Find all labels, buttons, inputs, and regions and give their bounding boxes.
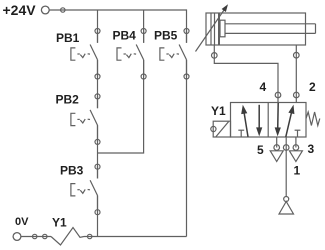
connection node a on 0V rail — [33, 234, 37, 238]
push button PB2 — [71, 94, 100, 144]
svg-text:Y1: Y1 — [211, 104, 226, 118]
valve left position flow path 2 to 3 — [258, 105, 260, 130]
connection node valve port 2 — [294, 92, 300, 98]
relay coil Y1 — [51, 228, 84, 246]
push button PB4 — [117, 29, 146, 80]
svg-text:PB5: PB5 — [154, 29, 178, 43]
wire PB5 branch drop — [186, 9, 188, 42]
svg-text:+24V: +24V — [3, 2, 37, 18]
svg-text:4: 4 — [260, 80, 267, 94]
+24V supply terminal — [41, 6, 49, 14]
connection node valve port 4 — [275, 92, 281, 98]
tube cylinder right port to valve port 2 — [295, 45, 297, 103]
svg-text:PB4: PB4 — [113, 29, 137, 43]
svg-text:1: 1 — [294, 164, 301, 178]
wire PB3 to 0V rail — [97, 195, 99, 236]
wire valve port 5 stub — [276, 137, 278, 148]
cylinder A (double-acting with cushioning) — [206, 13, 316, 45]
wire PB1 branch drop — [97, 10, 99, 43]
0V supply terminal — [13, 233, 21, 241]
push button PB5 — [160, 29, 189, 80]
svg-text:5: 5 — [257, 143, 264, 157]
wire 0V lead — [21, 236, 51, 238]
svg-text:Y1: Y1 — [52, 216, 67, 230]
svg-text:3: 3 — [308, 142, 315, 156]
wire PB4 branch drop — [143, 10, 145, 43]
push button PB3 — [71, 164, 100, 215]
connection node after coil Y1 — [88, 234, 92, 238]
valve left position blocked port 5 — [238, 129, 244, 131]
wire +24V rail — [49, 9, 186, 11]
push button PB1 — [71, 29, 100, 80]
connection node valve port 1 — [283, 145, 289, 151]
svg-text:0V: 0V — [15, 216, 29, 228]
connection node b on 0V rail — [43, 234, 47, 238]
tube cylinder left port to valve port 4 — [214, 45, 278, 103]
wire 0V rail — [84, 236, 187, 238]
tube valve port 1 to supply — [285, 137, 287, 197]
connection node valve port 3 — [293, 145, 299, 151]
exhaust silencer port 5 — [270, 151, 283, 162]
compressed air supply — [279, 202, 294, 215]
connection node on +24V rail — [61, 8, 65, 12]
cushioning adjustment arrow — [196, 9, 225, 52]
valve rest position flow path 4 to 5 — [277, 103, 280, 130]
svg-text:PB1: PB1 — [56, 31, 80, 45]
connection node cylinder left port — [212, 53, 218, 59]
valve rest position flow path 1 to 2 — [286, 110, 292, 137]
wire PB5 to 0V rail — [186, 60, 188, 237]
valve V1 body (5/2 way) — [231, 103, 307, 138]
exhaust silencer port 3 — [289, 151, 302, 162]
wire PB2 to PB3 — [97, 125, 99, 178]
connection node valve port 5 — [274, 145, 280, 151]
connection node cylinder right port — [294, 52, 300, 58]
svg-text:2: 2 — [309, 80, 316, 94]
wire PB4 to junction — [98, 60, 144, 153]
valve return spring — [306, 112, 320, 126]
solenoid Y1 actuator — [211, 121, 231, 137]
valve rest position blocked port 3 — [295, 129, 301, 131]
wire valve port 3 stub — [295, 137, 297, 148]
svg-text:PB2: PB2 — [56, 93, 80, 107]
wire PB1 to PB2 — [97, 60, 99, 108]
connection node supply — [284, 197, 289, 202]
svg-text:PB3: PB3 — [60, 164, 84, 178]
valve left position flow path 1 to 4 — [244, 110, 248, 137]
